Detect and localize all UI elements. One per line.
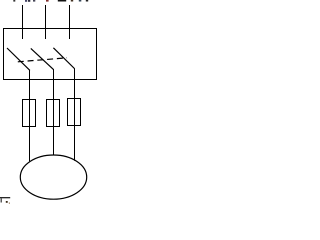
wire pole 3 bottom lead	[74, 68, 76, 161]
fuse FU3	[68, 99, 81, 126]
wire pole 2 bottom lead	[53, 69, 55, 156]
motor M circle	[20, 155, 86, 199]
switch QS pole 1 blade	[7, 48, 30, 70]
clipped caption fragment bottom-left	[0, 197, 10, 204]
switch QS pole 3 blade	[53, 48, 74, 69]
clipped caption text fragments (top edge)	[13, 0, 88, 2]
switch QS enclosure box	[4, 29, 97, 80]
wire L1 top lead	[22, 5, 24, 39]
wire pole 1 bottom lead	[29, 70, 31, 161]
fuse FU1 internal lead	[29, 100, 31, 127]
fuse FU1	[23, 100, 36, 127]
switch QS linkage dashed line	[18, 58, 67, 62]
fuse FU2	[47, 100, 60, 127]
wire L2 top lead	[45, 5, 47, 39]
switch QS pole 2 blade	[31, 48, 54, 69]
fuse FU3 internal lead	[74, 99, 76, 126]
fuse FU2 internal lead	[53, 100, 55, 127]
wire L3 top lead	[69, 5, 71, 39]
